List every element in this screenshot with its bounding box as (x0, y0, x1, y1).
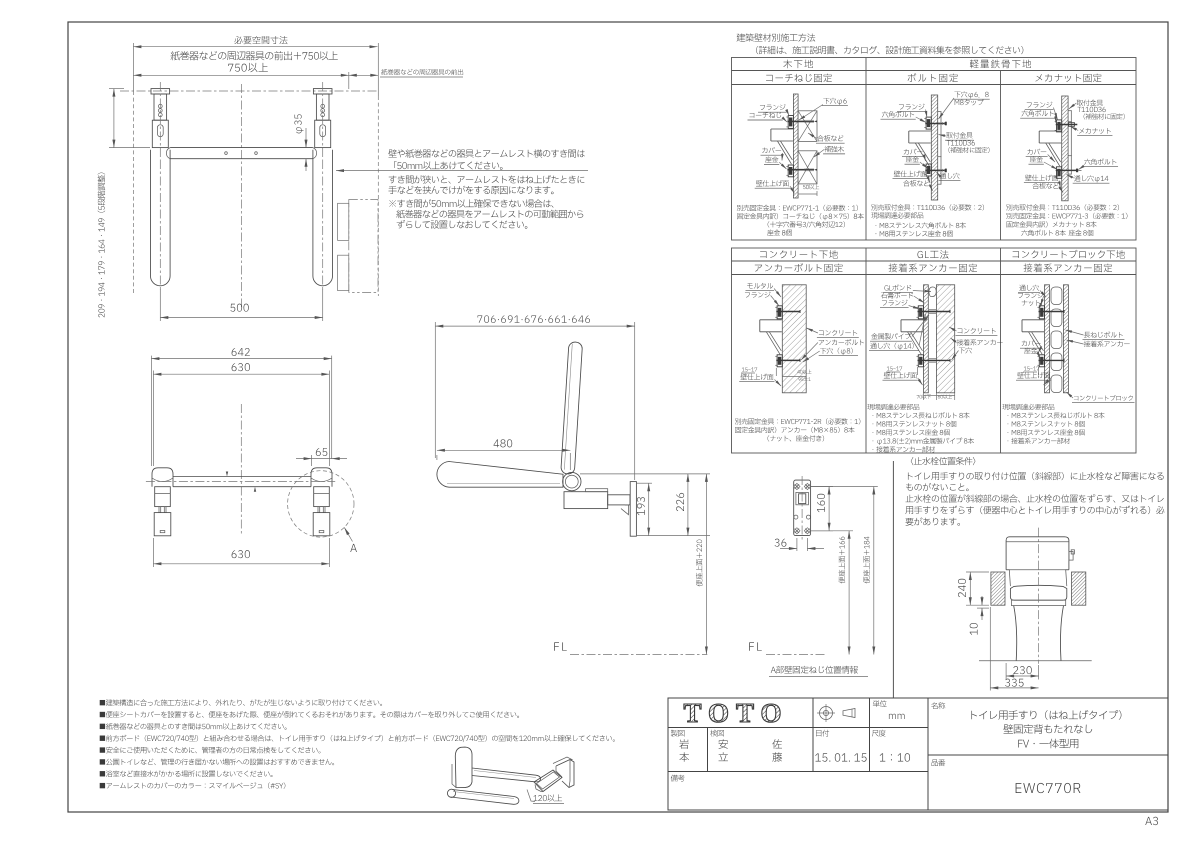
front view: right post holes (321, 104, 325, 108)
title block grid (927, 698, 929, 810)
cell6: armrest tube and brace (1022, 320, 1044, 332)
front view: horizontal centerline through caps (120, 90, 377, 92)
view2: dim 65 (316, 448, 328, 456)
view2: right bracket cap (311, 468, 332, 487)
cell1: 50以上 mini dim (803, 184, 819, 189)
view2: crossbar lines (173, 476, 311, 478)
view2: bottom dim 630 (232, 550, 250, 558)
toilet: tank (1006, 537, 1069, 570)
cell6: labels (1019, 285, 1039, 291)
cell2: bolts with washers (925, 123, 945, 125)
cell2: labels (954, 91, 988, 98)
view2: dim 642 (232, 348, 250, 356)
cell3: bottom parts text (1006, 204, 1119, 210)
front view: paper holder phantom outline (349, 200, 378, 293)
cell5: bottom mini dims (917, 395, 931, 399)
toilet: dim 230 (1013, 666, 1031, 674)
cell6: block cores (1051, 287, 1062, 305)
front view: top dimension 必要空間寸法 (235, 36, 288, 44)
cell1: armrest tube and brace (771, 129, 793, 141)
cell3 diagram: wall strip (1062, 96, 1068, 201)
front view: left post upper body (154, 94, 167, 120)
toilet: flush handle (1069, 551, 1073, 560)
table header line2 (756, 46, 1023, 54)
title block name text (971, 710, 1121, 720)
cell5: bottom parts text (867, 404, 919, 410)
cell4: mini dims (742, 367, 757, 371)
cell6: long bolts (1039, 311, 1065, 313)
front view: gap arrow to text (336, 170, 588, 172)
sketch: 120以上 leader and label (527, 790, 535, 802)
cell4: anchor bolts (776, 311, 800, 313)
cell4 diagram: concrete wall (782, 285, 806, 393)
cell1: labels (760, 104, 786, 110)
view2: detail circle A (288, 471, 354, 537)
front view: crossbar (170, 147, 313, 149)
cell4: labels (747, 283, 773, 289)
toilet: seat (1010, 585, 1066, 600)
toilet: hatched zone left (991, 572, 1005, 605)
front view: right post slot (320, 125, 326, 137)
front view: φ35 dim (294, 114, 303, 133)
side view: hinge (563, 472, 581, 490)
note block: 壁や紙巻器 text (388, 149, 584, 157)
front view: left tube centerline (159, 160, 161, 292)
side view: dim 193 (648, 483, 650, 535)
cell3: hex bolt lower (1056, 169, 1076, 171)
cell3: fittings (1057, 120, 1062, 132)
cell6: fittings (1039, 306, 1044, 319)
front view: extension lines (132, 43, 134, 91)
sketch: wall bracket (556, 760, 574, 788)
cell2 diagram: wall strip (931, 95, 937, 200)
cell2: armrest tube and brace (909, 131, 931, 143)
toilet: dim 10 (977, 607, 989, 609)
sketch: right pad (534, 770, 562, 792)
detail A: dim 便座上面+166 (848, 531, 850, 655)
detail A: screws (795, 484, 799, 488)
view2: dim 630 top (232, 363, 250, 371)
front view: left post centerline (159, 82, 161, 160)
cell2: fittings (926, 117, 931, 129)
cell3: mekanut bolt upper (1056, 124, 1078, 126)
front view: right post centerline (322, 82, 324, 160)
cell5: armrest tube and brace (901, 320, 923, 332)
front view: right post upper body (316, 94, 329, 120)
front view: label 紙巻器などの周辺器具の前出+750以上 (171, 51, 338, 60)
view2: right bracket block (314, 487, 330, 507)
cell4: fittings (777, 306, 782, 319)
toilet: centerline (1038, 528, 1040, 664)
side view: top dim 706-646 (478, 315, 590, 323)
sketch: upper tube (472, 768, 541, 782)
view2: left bracket cap (152, 468, 173, 487)
front view: left armrest tube (151, 150, 171, 286)
cell4: bottom parts text (735, 418, 860, 424)
front view: left wall post cap (151, 89, 170, 94)
front view: short dim 紙巻器などの周辺器具の前出 (349, 74, 379, 76)
cell3: armrest tube and brace (1039, 131, 1061, 143)
detail A: FL (749, 642, 762, 650)
side view: dim 226 (687, 474, 689, 536)
stopcock note text (911, 457, 976, 465)
cell2: bottom parts text (871, 204, 984, 210)
toilet: hatched zone right (1072, 572, 1086, 605)
side view: dim 便座上面+220 (705, 474, 707, 655)
table headers (783, 60, 813, 69)
table2 grid (732, 248, 1137, 453)
table header line1 建築壁材別施工方法 (737, 33, 816, 41)
cell5 diagram: gypsum board (924, 285, 929, 393)
detail A: dim 160 (828, 487, 830, 531)
svg-text:TOTO: TOTO (683, 698, 788, 728)
toilet: body between tank and seat (1006, 570, 1069, 586)
side view: raised armrest tube (561, 342, 583, 475)
view2: right bracket legs (317, 507, 319, 513)
cell3: bracket behind wall (1070, 111, 1072, 174)
cell1: lower fitting (788, 165, 793, 177)
detail A: plate (794, 480, 811, 535)
detail A: center hole (796, 492, 809, 504)
side view: wall plate (630, 482, 636, 537)
third angle projection symbol (820, 707, 833, 720)
toilet: pedestal (1014, 606, 1064, 661)
side view: lowered armrest (437, 462, 563, 488)
front view: right tube centerline (322, 160, 324, 292)
front view: bottom dim 500 (230, 304, 248, 312)
toilet: dim 240 (969, 572, 971, 605)
view2: extension lines (150, 356, 152, 466)
stopcock note divider line (892, 461, 894, 698)
view2: left bracket legs (158, 507, 160, 513)
detail A: centerline (801, 476, 803, 541)
cell2: bracket behind wall (940, 112, 942, 185)
sketch: lower tube (451, 790, 519, 805)
detail A: caption A部壁固定ねじ位置情報 (771, 666, 858, 674)
front view: paper holder tabs (338, 203, 349, 240)
detail A: dim 便座上面+184 (873, 487, 875, 655)
toilet: seat rim (1012, 600, 1066, 605)
view2: left lower plate (154, 513, 171, 536)
toilet: floor line (979, 660, 1092, 662)
front view: left post slot (157, 125, 163, 137)
front view: left height dim 209-149 5段階調整 (113, 89, 115, 148)
cell3: labels (1077, 100, 1103, 106)
front view: center vertical centerline (241, 84, 243, 307)
cell1: cross-braced boards (798, 111, 817, 142)
title block small labels (873, 700, 887, 707)
front view: right post lower block (315, 120, 331, 147)
side view: mount bracket (564, 492, 608, 509)
cell1: coach screws (787, 120, 814, 122)
cell5: long bolts with pipe (918, 311, 951, 313)
cell1: bottom parts text (737, 205, 858, 211)
toilet: dim 335 (1005, 679, 1023, 687)
cell6: bottom parts text (1002, 404, 1054, 410)
cell5: labels (884, 284, 911, 290)
table1 grid (732, 58, 1137, 241)
side view: dim 480 (494, 439, 513, 447)
cell6 diagram: block wall (1045, 285, 1050, 393)
front view: left post holes (158, 104, 162, 108)
front view: right armrest tube (313, 150, 333, 286)
view2: small marks on crossbar (226, 472, 228, 477)
front view: left post lower block (152, 120, 168, 147)
sketch: front board (455, 747, 472, 788)
cell1 diagram: wall strip (793, 94, 798, 198)
cell5: concrete layer (936, 285, 954, 393)
front view: dimension 750以上 (228, 63, 267, 72)
view2: left bracket block (155, 487, 171, 507)
cell5: fittings (918, 306, 923, 319)
view2: right lower plate (313, 513, 330, 536)
view2: centerline (240, 404, 242, 536)
detail A: dim 36 (775, 539, 787, 547)
cell1: upper fitting (788, 116, 793, 129)
front view: crossbar screws (225, 152, 228, 155)
side view: FL line (554, 642, 567, 650)
bottom notes list (100, 699, 382, 706)
title block names (679, 739, 688, 749)
front view: right wall post cap (313, 89, 332, 94)
view2: crossbar centerline (146, 481, 335, 483)
detail A: side holes (794, 515, 798, 519)
cell4: armrest tube and brace (760, 320, 782, 332)
sheet size A3 (1145, 817, 1158, 825)
title block outer (668, 698, 1168, 810)
cell5: GL bond blob (929, 287, 936, 297)
